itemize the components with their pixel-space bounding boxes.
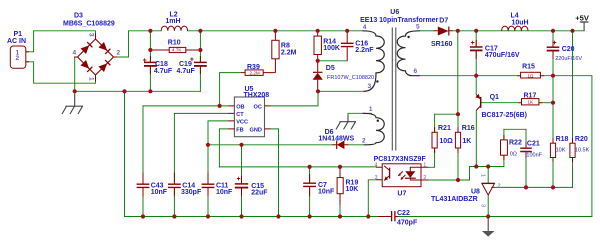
svg-text:1K: 1K: [528, 100, 535, 105]
svg-text:FB: FB: [236, 127, 243, 133]
svg-text:10Ω: 10Ω: [439, 138, 453, 145]
svg-text:1: 1: [480, 174, 486, 177]
svg-text:GND: GND: [250, 127, 262, 133]
svg-text:10nF: 10nF: [151, 189, 168, 196]
svg-text:OB: OB: [236, 104, 244, 110]
svg-text:+: +: [471, 40, 475, 47]
svg-text:10K: 10K: [556, 148, 566, 154]
svg-text:6: 6: [414, 68, 418, 75]
svg-text:2: 2: [117, 50, 121, 57]
svg-text:1: 1: [423, 162, 426, 168]
svg-text:R22: R22: [509, 140, 522, 147]
svg-text:10uH: 10uH: [512, 20, 529, 27]
svg-text:THX208: THX208: [244, 92, 270, 99]
svg-text:5: 5: [416, 24, 420, 31]
svg-text:2: 2: [362, 138, 366, 145]
svg-text:D5: D5: [326, 65, 335, 72]
svg-text:R20: R20: [575, 136, 588, 143]
svg-text:TL431AIDBZR: TL431AIDBZR: [431, 196, 478, 203]
svg-text:EE13 10pinTransformer: EE13 10pinTransformer: [360, 17, 438, 24]
svg-text:VCC: VCC: [236, 119, 248, 125]
svg-text:U6: U6: [390, 9, 399, 16]
svg-text:10nF: 10nF: [216, 189, 233, 196]
svg-text:R18: R18: [556, 136, 569, 143]
svg-text:10.5K: 10.5K: [575, 148, 590, 154]
svg-text:2: 2: [423, 175, 426, 181]
svg-text:1: 1: [369, 106, 373, 113]
svg-text:220uF/16V: 220uF/16V: [555, 56, 582, 62]
svg-text:4: 4: [363, 24, 367, 31]
svg-text:2.2nF: 2.2nF: [355, 47, 374, 54]
svg-text:330pF: 330pF: [181, 189, 202, 196]
svg-text:22uF: 22uF: [251, 190, 268, 197]
svg-text:CT: CT: [236, 112, 244, 118]
svg-text:R15: R15: [522, 64, 535, 71]
svg-text:Q1: Q1: [490, 94, 499, 101]
svg-text:3: 3: [88, 33, 95, 37]
svg-text:4: 4: [73, 50, 77, 57]
svg-text:P1: P1: [14, 31, 23, 38]
svg-text:D7: D7: [439, 18, 448, 25]
svg-text:2.2M: 2.2M: [281, 49, 297, 56]
svg-text:4.7uF: 4.7uF: [154, 68, 173, 75]
svg-text:4.7uF: 4.7uF: [177, 68, 196, 75]
svg-text:SR160: SR160: [431, 41, 453, 48]
svg-text:OC: OC: [254, 104, 262, 110]
svg-text:R10: R10: [168, 40, 181, 47]
svg-text:MB6S_C108829: MB6S_C108829: [63, 20, 115, 27]
svg-text:D3: D3: [74, 12, 83, 19]
svg-text:BC817-25(6B): BC817-25(6B): [482, 112, 528, 119]
svg-text:100K: 100K: [323, 45, 340, 52]
svg-text:U7: U7: [397, 190, 406, 197]
svg-text:+: +: [237, 176, 241, 183]
svg-text:C20: C20: [562, 46, 575, 53]
svg-text:FR107W_C108820: FR107W_C108820: [327, 75, 374, 81]
svg-text:2: 2: [16, 55, 20, 62]
svg-text:R16: R16: [462, 125, 475, 132]
svg-text:1K: 1K: [462, 138, 471, 145]
svg-text:2: 2: [498, 184, 501, 190]
svg-text:4: 4: [375, 162, 378, 168]
svg-text:3: 3: [368, 83, 372, 90]
svg-text:1N4148WS: 1N4148WS: [318, 136, 354, 143]
svg-text:100nF: 100nF: [526, 152, 542, 158]
svg-text:3: 3: [480, 204, 486, 207]
svg-text:3: 3: [375, 175, 378, 181]
svg-text:U8: U8: [471, 189, 480, 196]
svg-text:C22: C22: [397, 210, 410, 217]
svg-text:PC817X3NSZ9F: PC817X3NSZ9F: [374, 156, 427, 163]
svg-text:1mH: 1mH: [165, 18, 180, 25]
svg-text:1Ω: 1Ω: [528, 73, 535, 78]
svg-text:4.7K: 4.7K: [172, 48, 182, 53]
svg-text:+: +: [553, 40, 557, 47]
svg-text:10K: 10K: [346, 186, 359, 193]
svg-text:+: +: [143, 57, 147, 64]
svg-text:+: +: [190, 56, 194, 63]
svg-text:0Ω: 0Ω: [510, 151, 517, 157]
svg-text:470uF/16V: 470uF/16V: [485, 52, 520, 59]
svg-text:AC IN: AC IN: [7, 38, 26, 45]
svg-text:C21: C21: [527, 140, 540, 147]
svg-text:+5V: +5V: [575, 13, 589, 22]
svg-text:470pF: 470pF: [397, 220, 418, 227]
svg-text:1: 1: [88, 77, 95, 81]
svg-text:2.2M: 2.2M: [250, 70, 260, 75]
svg-text:R21: R21: [438, 125, 451, 132]
svg-text:10nF: 10nF: [318, 189, 335, 196]
svg-text:R17: R17: [524, 92, 537, 99]
